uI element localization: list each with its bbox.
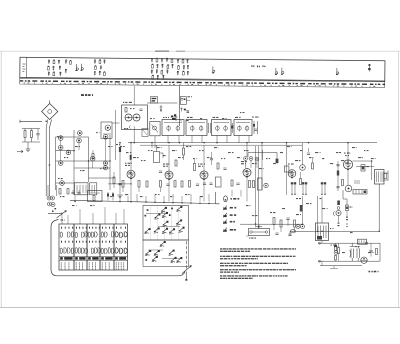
antenna terminal wire <box>20 120 42 123</box>
bypass capacitor C12 <box>210 152 213 165</box>
keyboard switch unit S2 (lower) <box>143 240 189 267</box>
boundary dashed riser <box>185 241 187 281</box>
antenna feeder wire <box>46 120 51 197</box>
RF coil L9b <box>103 166 107 170</box>
AVC filter box <box>88 191 103 202</box>
FM unit output wire <box>147 102 177 104</box>
gramophone switch arrow <box>48 211 67 219</box>
output grid resistor R20 <box>336 161 339 191</box>
feedback component <box>290 230 295 233</box>
PSU resistor R31 <box>338 243 340 261</box>
IF transformer S1 box <box>150 122 160 136</box>
padder capacitor C5 <box>113 172 115 188</box>
AF stage wire <box>262 143 303 195</box>
IF transformer T2 <box>186 117 207 136</box>
AVC diode circles <box>47 185 57 212</box>
FM IF small box <box>142 129 148 137</box>
oscillator section box <box>101 122 112 138</box>
AF grid resistors <box>249 181 255 188</box>
HT bus wire <box>128 142 377 144</box>
AVC capacitors <box>71 190 80 194</box>
RF coil L9a <box>103 161 107 165</box>
input resistor R2 <box>31 131 33 138</box>
AVC bus wire <box>70 192 220 204</box>
tuner AM aerial coil parts <box>47 59 71 76</box>
FM unit box U1 <box>122 102 148 130</box>
tuner RF coil parts <box>94 59 106 75</box>
aerial coil L3 <box>58 161 63 166</box>
coil L10 <box>60 181 65 186</box>
driver parts <box>300 148 314 185</box>
tuner trimmer C-t <box>336 68 339 75</box>
detector roof wire <box>248 153 277 159</box>
component value labels <box>57 108 376 253</box>
EB41 chain <box>333 201 341 227</box>
label B5B2-HE <box>81 94 93 96</box>
tone stack resistor R27 <box>300 205 303 212</box>
pilot lamp <box>365 242 368 245</box>
top row component tails <box>291 182 326 195</box>
IF can box (coil unit) <box>75 183 89 195</box>
tone control network <box>240 218 302 236</box>
HT rail wires <box>318 242 380 265</box>
grid leak parts row <box>146 163 240 187</box>
keyboard unit boundary <box>51 220 185 276</box>
cathode junction wire <box>108 183 132 184</box>
coil L7 <box>90 156 95 161</box>
arrow terminal <box>17 150 23 152</box>
RF coil L8 <box>103 135 108 140</box>
pot terminal circles <box>250 231 268 233</box>
IF can box 2 (coil unit) <box>90 183 97 195</box>
oscillator coil L5 <box>78 131 83 136</box>
volume potentiometer R25 <box>246 225 270 239</box>
screen resistor R12 <box>154 145 164 163</box>
IF transformer T3 <box>212 117 232 136</box>
tube V3 ECH42 <box>163 164 173 180</box>
EZ40 chain <box>346 205 353 227</box>
volume control wires <box>256 146 263 228</box>
coupling box C17 <box>284 166 292 176</box>
AF coupling wire <box>261 157 263 190</box>
tube V5 EAF42 <box>241 161 251 177</box>
AVC bus upper wire <box>140 144 302 146</box>
FM tube V1b <box>133 114 140 121</box>
FM tube V1a <box>125 114 132 121</box>
indicator diode part <box>160 105 163 112</box>
AF stage tube V6b <box>300 165 306 171</box>
dial scale strip <box>20 77 385 87</box>
tone stack circles <box>296 225 305 229</box>
tone stack wire B <box>318 196 322 231</box>
anode resistor R13 <box>183 143 185 160</box>
ground (input) <box>26 147 31 151</box>
detector capacitor C15 <box>276 159 279 164</box>
wave-band legend <box>224 196 240 232</box>
IF transformer T4 <box>234 117 252 136</box>
tube V4 EF41 <box>198 164 208 180</box>
boundary switch arrow <box>182 266 192 274</box>
page left edge <box>0 51 2 308</box>
stage decoupling parts <box>159 160 177 172</box>
stage wires to chassis <box>123 177 247 202</box>
drawing number <box>369 271 379 273</box>
bus-to-anode wires <box>131 143 247 171</box>
smoothing capacitor C30 <box>350 243 356 261</box>
input resistor R1 <box>24 131 26 138</box>
IF transformer T1 <box>162 117 184 136</box>
FM unit parts <box>124 108 143 130</box>
input node wires <box>22 129 40 148</box>
tube V2 EF41 <box>125 163 135 179</box>
transformer feed wire <box>321 197 323 224</box>
tuner oscillator coil parts <box>177 59 189 76</box>
FM-coil link wire <box>112 110 120 160</box>
feedback wire <box>290 184 379 236</box>
tuner scale lamp marks <box>251 65 265 67</box>
filter choke/trafo top <box>358 239 367 244</box>
coupling coil L4 <box>66 150 71 155</box>
output coupling box <box>353 190 367 195</box>
rectifier V9 <box>361 257 367 263</box>
coil unit stubs <box>61 139 106 168</box>
grid resistor on wire <box>130 155 132 160</box>
keyboard switch unit S2 (upper) <box>143 206 189 241</box>
speaker LS <box>384 171 388 181</box>
page bottom edge <box>0 307 400 309</box>
detector diode parts <box>252 117 259 135</box>
indicator lower parts <box>180 108 189 113</box>
stamp label box <box>151 97 158 104</box>
tuner lamp pair <box>275 68 284 75</box>
trimmer C6 <box>92 150 94 159</box>
tuning indicator V8 box <box>180 96 192 104</box>
output tube V7 (EL41) <box>343 153 352 171</box>
cathode circles V5b <box>264 183 268 187</box>
tone stack wire A <box>302 196 304 224</box>
push-button switch matrix S3 <box>59 224 128 270</box>
phase inverter V7b <box>342 180 361 192</box>
diode load circles <box>244 157 259 168</box>
tuner coupling parts <box>75 64 83 71</box>
aerial coil L1 <box>58 136 63 141</box>
AF tube V6 <box>288 164 296 179</box>
mains transformer T6 <box>316 223 329 243</box>
input capacitor C1 <box>36 129 39 140</box>
tuner FM tuner pack parts <box>151 58 174 80</box>
page right edge <box>398 51 400 308</box>
tuner left end marks <box>22 64 25 72</box>
switch matrix feed stubs <box>62 207 124 224</box>
tone capacitor C20 <box>361 165 369 171</box>
output stage wires <box>348 143 374 185</box>
grid components cluster a <box>116 143 122 195</box>
ground (V2 cathode) <box>117 195 123 198</box>
HT rail end wire <box>379 243 381 261</box>
free stubs <box>232 190 241 197</box>
rectifier feed wire <box>343 190 347 205</box>
tuner single part <box>212 66 215 73</box>
inter-can part A <box>209 123 211 133</box>
dial pointer cluster <box>171 114 178 121</box>
tone stack labels <box>296 198 301 215</box>
AVC stub wires <box>75 194 209 202</box>
PSU capacitor C32 <box>369 243 377 256</box>
matrix corner label <box>61 220 65 221</box>
bus stub wires <box>134 86 249 148</box>
smoothing capacitor C31 <box>357 246 360 261</box>
coil frame wires <box>56 130 116 195</box>
cathode resistor R14 <box>194 158 196 171</box>
AVC small parts <box>107 192 114 201</box>
inter-can part B <box>231 123 233 133</box>
cathode network parts <box>122 181 213 188</box>
oscillator coil L6 <box>77 138 82 143</box>
coil unit bottom resistors <box>59 189 69 195</box>
PSU lower wire <box>322 261 338 268</box>
notes text <box>220 248 296 279</box>
page top edge <box>0 50 400 52</box>
output transformer T5 <box>375 170 387 185</box>
tuner chassis outline <box>20 57 385 81</box>
electrolytic C16 <box>258 178 263 190</box>
aerial coil L2 <box>58 145 63 150</box>
tuning indicator wire <box>179 86 181 127</box>
antenna A1 <box>42 101 58 120</box>
dropper resistor chain <box>331 243 338 261</box>
tuner trimmer C-o <box>368 64 371 72</box>
